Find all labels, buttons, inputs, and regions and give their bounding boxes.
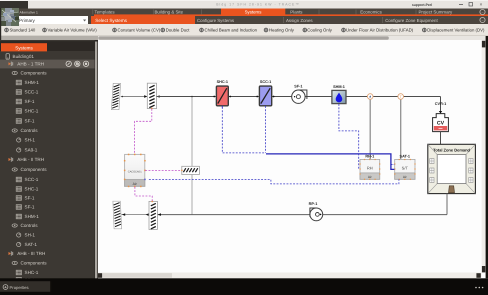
svg-text:SHC-1: SHC-1 (25, 187, 39, 192)
svg-text:Economics: Economics (360, 9, 382, 14)
svg-text:T: T (400, 95, 402, 99)
svg-text:SCC-1: SCC-1 (25, 90, 39, 95)
svg-text:Configure Zone Equipment: Configure Zone Equipment (385, 18, 438, 23)
svg-text:SHC-1: SHC-1 (25, 270, 39, 275)
svg-text:RH-1: RH-1 (365, 154, 374, 158)
svg-text:Project Summary: Project Summary (419, 9, 453, 14)
svg-text:CV: CV (437, 120, 445, 126)
svg-text:AHB - III TRH: AHB - III TRH (17, 251, 45, 256)
svg-text:Standard 140: Standard 140 (10, 28, 36, 33)
svg-text:SHC-1: SHC-1 (217, 80, 228, 84)
svg-text:Building & Site: Building & Site (155, 9, 184, 14)
svg-text:support-Perl: support-Perl (412, 3, 432, 7)
svg-text:SHC-1: SHC-1 (25, 109, 39, 114)
svg-text:Assign Zones: Assign Zones (286, 18, 313, 23)
svg-text:Total Zone Demand: Total Zone Demand (433, 147, 470, 152)
svg-text:Under Floor Air Distribution (: Under Floor Air Distribution (UFAD) (346, 28, 414, 33)
svg-text:SF-1: SF-1 (25, 205, 35, 210)
svg-text:Plants: Plants (290, 9, 303, 14)
svg-text:SHM-1: SHM-1 (25, 80, 40, 85)
svg-text:SHM-1: SHM-1 (25, 214, 40, 219)
svg-text:RH: RH (367, 165, 373, 170)
svg-text:Primary: Primary (19, 18, 36, 23)
svg-text:Bldg 17 SFH 28-91 KW - TRACE™: Bldg 17 SFH 28-91 KW - TRACE™ (216, 2, 300, 6)
svg-text:SH-1: SH-1 (25, 138, 36, 143)
svg-text:SAT-1: SAT-1 (25, 242, 38, 247)
svg-text:Systems: Systems (15, 45, 33, 50)
svg-text:SF-1: SF-1 (25, 196, 35, 201)
svg-text:Components: Components (21, 167, 48, 172)
svg-text:RP-1: RP-1 (309, 202, 318, 206)
svg-text:SCC-1: SCC-1 (260, 80, 271, 84)
svg-text:SCC-1: SCC-1 (25, 177, 39, 182)
svg-text:Cooling Only: Cooling Only (307, 28, 332, 33)
svg-text:SF-1: SF-1 (25, 119, 35, 124)
svg-text:SAT-1: SAT-1 (400, 154, 410, 158)
svg-text:SF-1: SF-1 (25, 99, 35, 104)
svg-text:Properties: Properties (10, 285, 29, 290)
svg-text:Configure Systems: Configure Systems (197, 18, 235, 23)
svg-text:Chilled Beam and Induction: Chilled Beam and Induction (205, 28, 258, 33)
svg-text:Alternative 1: Alternative 1 (20, 10, 38, 14)
svg-text:AHB - 1 TRH: AHB - 1 TRH (17, 62, 44, 67)
svg-text:AHB - II TRH: AHB - II TRH (17, 157, 44, 162)
svg-text:SA9-1: SA9-1 (25, 148, 38, 153)
svg-text:Components: Components (21, 261, 48, 266)
svg-text:Controls: Controls (21, 223, 39, 228)
svg-text:Building01: Building01 (13, 54, 35, 59)
svg-text:Templates: Templates (95, 9, 116, 14)
svg-text:Double Duct: Double Duct (166, 28, 190, 33)
svg-text:SF-1: SF-1 (294, 84, 302, 88)
svg-text:SH-1: SH-1 (25, 233, 36, 238)
svg-text:Controls: Controls (21, 128, 39, 133)
svg-text:Variable Air Volume (VAV): Variable Air Volume (VAV) (48, 28, 98, 33)
svg-text:×: × (480, 2, 483, 8)
svg-text:S/T: S/T (402, 165, 409, 170)
svg-text:Heating Only: Heating Only (269, 28, 295, 33)
svg-text:SHM-1: SHM-1 (333, 85, 345, 89)
svg-text:CACGEN01: CACGEN01 (128, 170, 143, 173)
svg-text:Displacement Ventilation (DV): Displacement Ventilation (DV) (427, 28, 485, 33)
svg-text:Constant Volume (CV): Constant Volume (CV) (118, 28, 161, 33)
svg-text:CVR-1: CVR-1 (435, 102, 446, 106)
svg-text:Select Systems: Select Systems (95, 18, 127, 23)
svg-text:Systems: Systems (245, 9, 263, 14)
svg-text:Components: Components (21, 71, 48, 76)
